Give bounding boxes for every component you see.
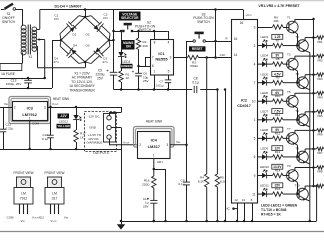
wire Vin [0, 107, 12, 109]
svg-text:VR5: VR5 [317, 114, 323, 118]
svg-text:+VCC: +VCC [245, 13, 252, 17]
preset VR2 [314, 55, 317, 57]
wire ADJ branch down [154, 169, 166, 171]
svg-text:D1: D1 [73, 33, 77, 37]
svg-text:YELLOW: YELLOW [57, 124, 70, 128]
resistor R16 220 [153, 169, 155, 176]
svg-text:VR4: VR4 [317, 95, 323, 99]
svg-text:VIN: VIN [4, 102, 9, 106]
svg-text:+: + [132, 69, 135, 74]
svg-text:X1: X1 [29, 55, 33, 59]
capacitor C7 0.01u [168, 75, 170, 80]
preset VR8 [314, 185, 317, 187]
svg-text:VR8: VR8 [317, 170, 323, 174]
svg-text:D1-D4 = 1N4007: D1-D4 = 1N4007 [54, 5, 81, 9]
bottom border [0, 231, 324, 233]
svg-text:25V: 25V [97, 77, 104, 81]
svg-text:4: 4 [254, 62, 256, 66]
wire VR bus [313, 19, 315, 186]
terminal variable [107, 135, 111, 139]
svg-text:LED8: LED8 [261, 128, 269, 132]
LED12 [76, 107, 78, 115]
pin stubs 8,4 [154, 31, 156, 39]
-12V label [58, 114, 70, 119]
capacitor C1 [60, 26, 69, 34]
svg-text:10: 10 [252, 100, 256, 104]
wire T10 collector node down [316, 186, 318, 221]
svg-text:560Ω: 560Ω [190, 64, 198, 68]
LED3 [262, 43, 267, 48]
LED1 column [121, 31, 123, 52]
transistor T10 [297, 188, 309, 200]
svg-text:7: 7 [152, 56, 154, 60]
svg-text:T9: T9 [287, 164, 291, 168]
resistor R15 1K [267, 193, 273, 195]
svg-text:T2: T2 [295, 35, 299, 39]
wire raw to IC4 VIN x186.5 [186, 41, 188, 145]
svg-text:T10: T10 [294, 183, 300, 187]
node voltage label 12V [272, 146, 283, 151]
switch S3 [187, 41, 194, 43]
transistor T7 [287, 133, 299, 145]
node voltage label 9V [272, 127, 283, 132]
svg-text:16: 16 [240, 21, 244, 25]
svg-text:3: 3 [254, 25, 256, 29]
rail left y149 [0, 149, 121, 151]
node voltage label 13.5V [272, 164, 283, 169]
svg-text:LED12: LED12 [59, 120, 69, 124]
svg-text:IC2: IC2 [241, 98, 248, 103]
transistor T3 [287, 58, 299, 70]
svg-text:OUTPUTS: OUTPUTS [93, 151, 110, 155]
svg-text:2: 2 [14, 105, 16, 109]
svg-text:VR2: VR2 [317, 58, 323, 62]
svg-text:0.1µ: 0.1µ [192, 80, 198, 84]
svg-text:VIN: VIN [20, 219, 25, 223]
svg-text:R: R [225, 37, 228, 41]
svg-text:(VARIABLE: (VARIABLE [87, 141, 103, 145]
svg-text:VR3: VR3 [317, 77, 323, 81]
LED1 [118, 52, 123, 57]
voltage selector label [119, 12, 141, 21]
svg-text:R15: R15 [275, 187, 281, 191]
transformer X1 [21, 25, 26, 30]
wire center tap [37, 39, 44, 41]
svg-text:LED4: LED4 [261, 54, 269, 58]
transistor T5 [287, 95, 299, 107]
op-amp IC1 NE555 [151, 40, 174, 76]
svg-text:0.1µ: 0.1µ [178, 182, 184, 186]
capacitor C3 [91, 56, 100, 64]
diode D1 [69, 25, 76, 32]
wire GND to ground [111, 127, 121, 129]
resistor R10 1K [267, 100, 273, 102]
svg-text:LED11: LED11 [260, 184, 269, 188]
svg-text:VR1: VR1 [317, 40, 323, 44]
svg-text:LM317: LM317 [148, 144, 161, 149]
diode D2 [93, 25, 100, 32]
node voltage label 15V [272, 183, 283, 188]
svg-text:14: 14 [234, 53, 238, 57]
fuse 1A [0, 64, 22, 71]
svg-text:1: 1 [153, 154, 155, 158]
node voltage label 6V [272, 90, 283, 95]
LED7 [262, 117, 267, 122]
svg-text:2: 2 [139, 143, 141, 147]
regulator IC4 LM317 [138, 132, 171, 159]
svg-text:VR7: VR7 [317, 151, 323, 155]
svg-text:3: 3 [170, 56, 172, 60]
svg-text:SWITCH: SWITCH [139, 28, 152, 32]
preset VR8 [314, 166, 317, 168]
capacitor C8 0.1u on rail [192, 86, 200, 94]
resistor R12 1K [267, 137, 273, 139]
svg-text:LED5: LED5 [261, 72, 269, 76]
svg-text:1: 1 [254, 118, 256, 122]
resistor R11 1K [267, 119, 273, 121]
svg-text:COM: COM [7, 215, 14, 219]
svg-text:FRONT VIEW: FRONT VIEW [45, 171, 65, 175]
capacitor C9 0.1u [186, 145, 188, 182]
capacitor C6 10u [138, 66, 140, 73]
wire NE555 pin3 out [173, 57, 188, 59]
capacitor C13 2200u [28, 78, 30, 80]
svg-text:R7: R7 [276, 39, 280, 43]
svg-text:T1-T10 = BC548: T1-T10 = BC548 [261, 208, 286, 212]
rail 0V y89.5 [114, 89, 218, 91]
svg-text:2: 2 [254, 44, 256, 48]
capacitor C2 [91, 16, 100, 24]
capacitor C11 0.22u [3, 107, 5, 129]
heat sink IC4 [134, 127, 175, 148]
terminal GND [107, 125, 111, 129]
resistor R7 1K [267, 45, 273, 47]
resistor R2 20K [138, 31, 140, 38]
svg-text:3: 3 [166, 143, 168, 147]
resistor R17 1K [74, 130, 78, 142]
capacitor C4 [60, 46, 68, 54]
wire R2 to pins 7,6 [139, 66, 146, 68]
wire S2 line [114, 31, 123, 33]
svg-text:T5: T5 [287, 90, 291, 94]
svg-text:VOUT: VOUT [50, 219, 57, 223]
wire S1 to transformer primary [16, 9, 22, 11]
svg-text:R12: R12 [275, 131, 281, 135]
switch S2 push-to-on [122, 30, 124, 32]
svg-text:5: 5 [254, 137, 256, 141]
resistor R3 560 [188, 55, 199, 59]
bridge wires D1-D4 [61, 17, 109, 62]
svg-text:0.01µ: 0.01µ [156, 84, 164, 88]
svg-text:317: 317 [52, 197, 58, 201]
svg-text:NC: NC [225, 207, 230, 211]
svg-text:VOUT: VOUT [123, 140, 130, 144]
svg-text:LED7: LED7 [261, 109, 269, 113]
svg-text:25V: 25V [143, 79, 149, 83]
node voltage label 3V [272, 53, 283, 58]
heat sink IC3 [9, 97, 51, 124]
diode D3 [94, 47, 101, 54]
svg-text:6: 6 [254, 155, 256, 159]
svg-text:47n: 47n [54, 17, 59, 21]
svg-text:LED6: LED6 [261, 91, 269, 95]
wire ADJ [153, 159, 155, 170]
svg-text:LM: LM [21, 191, 26, 195]
svg-text:IC3: IC3 [27, 105, 34, 110]
node voltage label 7.5V [272, 109, 283, 114]
svg-text:ADJ: ADJ [38, 215, 44, 219]
svg-text:1: 1 [154, 70, 156, 74]
svg-text:12: 12 [234, 198, 238, 202]
wire pin1 to rail [154, 75, 156, 90]
wire Vout [48, 107, 122, 109]
svg-text:3: 3 [44, 105, 46, 109]
wire -12V to terminal [109, 112, 111, 116]
node voltage label 1.25 [272, 34, 283, 39]
svg-text:R8: R8 [276, 57, 280, 61]
svg-text:8: 8 [154, 41, 156, 45]
node top rail [40, 9, 243, 11]
capacitor C5 2200u [110, 71, 118, 73]
svg-text:HEAT SINK: HEAT SINK [146, 120, 163, 124]
svg-text:0.22µ: 0.22µ [6, 126, 14, 130]
LED8 [262, 136, 267, 141]
capacitor C12 0.1u [50, 107, 52, 135]
svg-text:HEAT SINK: HEAT SINK [53, 97, 70, 101]
svg-text:T8: T8 [295, 146, 299, 150]
svg-text:SWITCH: SWITCH [2, 20, 16, 24]
svg-text:CLK: CLK [220, 53, 226, 57]
wire variable out to IC4 [109, 139, 111, 145]
preset VR5 [314, 111, 317, 113]
LED6 [262, 99, 267, 104]
svg-text:VIN: VIN [176, 140, 181, 144]
svg-text:4: 4 [168, 41, 170, 45]
svg-text:R13: R13 [275, 150, 281, 154]
transistor T6 [297, 114, 309, 126]
svg-text:-12V DC: -12V DC [88, 115, 101, 119]
LED9 [262, 154, 267, 159]
wire +V vertical x113.5 [113, 10, 115, 73]
svg-text:SWITCH: SWITCH [197, 20, 210, 24]
node voltage label 4.5V [272, 71, 283, 76]
transistor T2 [297, 40, 309, 52]
transistor T1 [287, 21, 299, 33]
svg-text:NE555: NE555 [155, 57, 168, 62]
resistor R4 8.2K [206, 58, 208, 175]
svg-text:47n: 47n [53, 60, 58, 64]
LED10 [262, 173, 267, 178]
preset VR7 [314, 148, 317, 150]
svg-text:GND: GND [89, 126, 97, 130]
svg-text:LED3: LED3 [261, 35, 269, 39]
transistor T4 [297, 77, 309, 89]
svg-text:VR6: VR6 [317, 133, 323, 137]
wire x225 [225, 90, 227, 222]
resistor R6 10K [262, 27, 273, 29]
resistor R5 8.2K [216, 90, 218, 175]
wire primary bottom to fuse [22, 53, 24, 64]
svg-text:LED2-LED11 = GREEN: LED2-LED11 = GREEN [261, 204, 298, 208]
resistor R13 1K [267, 156, 273, 158]
outputs box [85, 112, 117, 152]
svg-text:CD4017: CD4017 [237, 104, 251, 108]
mains on label [122, 40, 135, 50]
svg-text:13: 13 [242, 198, 246, 202]
svg-text:ON: ON [126, 45, 131, 49]
preset VR6 [314, 129, 317, 131]
svg-text:IC1: IC1 [158, 51, 165, 56]
svg-text:47n: 47n [103, 16, 108, 20]
svg-text:2200µ, 25V: 2200µ, 25V [6, 82, 21, 86]
wire secondary top to bridge [37, 29, 40, 31]
resistor R1 1K [119, 71, 123, 82]
svg-text:15: 15 [234, 37, 238, 41]
svg-text:5: 5 [168, 70, 170, 74]
rail 0V left y78 [0, 78, 45, 80]
svg-text:LED10: LED10 [260, 165, 270, 169]
svg-text:D3: D3 [86, 44, 90, 48]
ground [117, 224, 125, 229]
LED4 [262, 61, 267, 66]
rail ground bottom [121, 221, 317, 223]
svg-text:T1: T1 [287, 16, 291, 20]
svg-text:T3: T3 [287, 53, 291, 57]
svg-text:6: 6 [152, 64, 154, 68]
svg-text:RESET: RESET [192, 47, 203, 51]
svg-text:+: + [106, 68, 109, 73]
svg-text:10K: 10K [273, 19, 279, 23]
svg-text:20K: 20K [143, 44, 149, 48]
svg-text:0.1µ: 0.1µ [42, 137, 48, 141]
svg-text:11: 11 [252, 192, 256, 196]
preset VR1 [314, 37, 317, 39]
terminal -12V [107, 116, 111, 120]
LED5 [262, 80, 267, 85]
svg-text:GREEN: GREEN [121, 64, 132, 68]
switch S1 [1, 9, 5, 11]
svg-text:1K: 1K [126, 76, 131, 80]
svg-text:VIN: VIN [64, 215, 69, 219]
svg-text:R11: R11 [275, 113, 281, 117]
svg-text:VOUT: VOUT [52, 102, 59, 106]
svg-text:COM: COM [32, 122, 40, 126]
svg-text:D4: D4 [73, 44, 77, 48]
svg-text:1: 1 [29, 116, 31, 120]
wire IC4 Vin [170, 144, 187, 146]
wire COM [29, 121, 31, 150]
svg-text:LED9: LED9 [261, 147, 269, 151]
capacitor C10 1u 25V [150, 199, 157, 201]
rail -V left y88 [0, 88, 52, 90]
svg-text:D2: D2 [86, 33, 90, 37]
svg-text:R14: R14 [275, 168, 281, 172]
svg-text:VR1-VR8 = 4.7K PRESET: VR1-VR8 = 4.7K PRESET [258, 4, 300, 8]
svg-text:220Ω: 220Ω [142, 182, 150, 186]
transistor T9 [287, 170, 299, 182]
preset VR4 [314, 92, 317, 94]
svg-text:ADJ: ADJ [157, 160, 163, 164]
wire emitter bus [309, 53, 311, 221]
resistor R9 1K [267, 82, 273, 84]
counter IC2 CD4017 [232, 20, 258, 204]
svg-text:R9: R9 [276, 76, 280, 80]
svg-text:1K: 1K [80, 135, 85, 139]
svg-text:8.2K: 8.2K [198, 180, 204, 184]
svg-text:47n: 47n [102, 60, 107, 64]
svg-text:1A FUSE: 1A FUSE [1, 72, 16, 76]
svg-text:R10: R10 [275, 94, 281, 98]
regulator IC3 LM7912 [13, 102, 48, 121]
svg-text:TRANSFORMER: TRANSFORMER [69, 89, 95, 93]
wire secondary bottom [37, 45, 38, 47]
svg-text:-12V: -12V [60, 114, 68, 118]
resistor R14 1K [267, 174, 273, 176]
svg-text:T7: T7 [287, 127, 291, 131]
transistor T8 [297, 151, 309, 163]
svg-text:9: 9 [254, 174, 256, 178]
IC2 bottom pin wires [237, 203, 239, 221]
LED11 [262, 191, 267, 196]
svg-text:7: 7 [254, 81, 256, 85]
svg-text:T4: T4 [295, 72, 299, 76]
svg-text:IC4: IC4 [151, 137, 158, 142]
svg-text:SELECTOR: SELECTOR [121, 16, 139, 20]
preset VR3 [314, 74, 317, 76]
svg-text:7912: 7912 [20, 197, 28, 201]
svg-text:25V: 25V [143, 204, 149, 208]
svg-text:T6: T6 [295, 109, 299, 113]
diode D4 [70, 48, 77, 55]
resistor R8 1K [267, 63, 273, 65]
reset label [189, 46, 206, 51]
svg-text:LM: LM [52, 191, 57, 195]
svg-text:FRONT VIEW: FRONT VIEW [14, 171, 34, 175]
svg-text:R7-R15 = 1K: R7-R15 = 1K [261, 213, 281, 217]
